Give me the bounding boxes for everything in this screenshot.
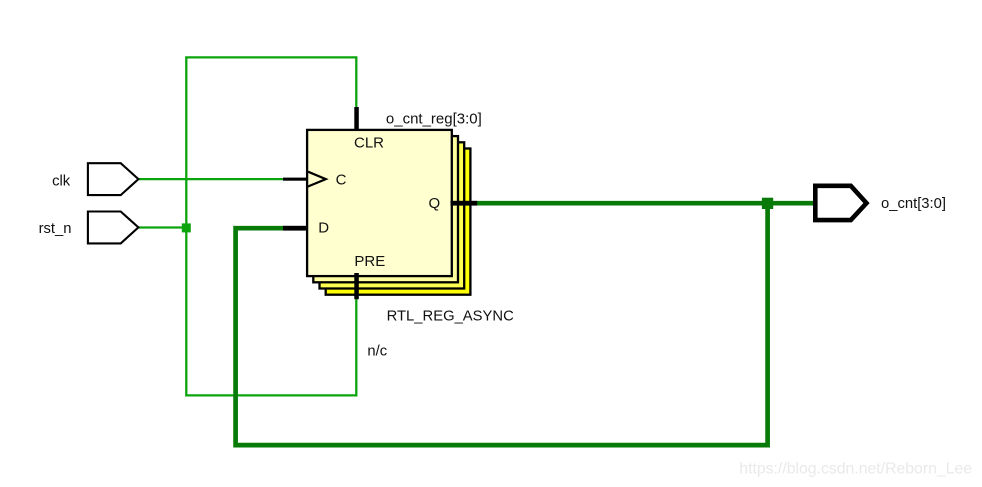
pin stub D (283, 226, 307, 231)
svg-text:o_cnt_reg[3:0]: o_cnt_reg[3:0] (386, 110, 482, 127)
register stack layer 2 (313, 136, 458, 282)
svg-text:n/c: n/c (367, 343, 387, 359)
wire clk net (input port to C pin) (138, 178, 284, 180)
pin stub CLR (354, 107, 359, 131)
pin stub PRE (354, 273, 359, 299)
svg-text:CLR: CLR (354, 135, 384, 152)
svg-text:rst_n: rst_n (39, 221, 72, 237)
wire rst_n loop to CLR and PRE pins (186, 57, 356, 395)
wire clk black segment to C pin (283, 178, 307, 181)
node junction rst_n (182, 223, 191, 232)
svg-text:clk: clk (52, 174, 71, 190)
output port o_cnt (815, 186, 866, 220)
wire bus feedback from junction to D pin (236, 203, 768, 445)
svg-text:Q: Q (429, 195, 441, 212)
input port rst_n (88, 212, 138, 244)
svg-text:PRE: PRE (354, 253, 385, 270)
node junction o_cnt bus (762, 198, 773, 209)
svg-text:C: C (336, 172, 347, 189)
clock triangle at C pin (308, 172, 326, 187)
wire rst_n net from port to junction (138, 226, 186, 228)
svg-text:o_cnt[3:0]: o_cnt[3:0] (881, 196, 946, 212)
svg-text:D: D (318, 220, 329, 237)
input port clk (88, 163, 138, 195)
svg-text:RTL_REG_ASYNC: RTL_REG_ASYNC (387, 309, 515, 325)
register o_cnt_reg body (307, 130, 452, 276)
pin stub Q (451, 201, 478, 206)
register stack layer 3 (320, 142, 465, 288)
svg-text:https://blog.csdn.net/Reborn_L: https://blog.csdn.net/Reborn_Lee (739, 461, 972, 478)
register stack layer 4 (326, 149, 471, 295)
wire bus Q to output port (477, 201, 816, 206)
